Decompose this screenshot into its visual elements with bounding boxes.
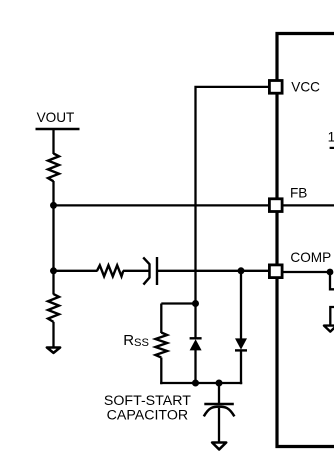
wire FB net horizontal [54, 204, 270, 206]
resistor RSS [156, 333, 168, 358]
node FB divider junction [50, 202, 57, 209]
wire COMP net left segment [54, 270, 98, 272]
wire fraction bar (clipped) [330, 147, 334, 149]
node COMP internal junction [327, 269, 334, 276]
wire right diode branch upper [240, 271, 242, 339]
svg-text:1: 1 [328, 129, 334, 144]
resistor R3 (compensation, horizontal) [97, 265, 123, 276]
ground (below R2) [47, 348, 60, 353]
svg-text:CAPACITOR: CAPACITOR [107, 408, 188, 424]
wire VCC branch: pin to vertical rail [196, 87, 270, 304]
pin square FB [269, 199, 282, 212]
wire COMP internal to corner [283, 272, 334, 289]
diode D2 (pointing down) triangle [235, 338, 247, 349]
wire right diode branch lower [240, 350, 242, 384]
svg-text:VCC: VCC [291, 80, 320, 95]
wire RSS branch top lead [160, 304, 162, 334]
ground (below CSS) [212, 443, 226, 450]
diode D1 (pointing up) cathode bar [190, 337, 202, 339]
wire soft-start cap top lead [218, 383, 220, 404]
wire R2 to ground [52, 322, 54, 347]
capacitor CSS curved plate [204, 407, 235, 417]
wire RSS bottom lead [160, 358, 162, 385]
wire R1 to FB node down to R2 [52, 181, 54, 295]
capacitor C1 straight plate [156, 257, 158, 285]
wire RSS top connection [161, 302, 195, 304]
wire bottom horizontal (soft-start net) [160, 382, 242, 384]
wire left diode branch lower [194, 350, 196, 383]
IC U1 box outline [277, 34, 334, 447]
node COMP row left junction [50, 267, 57, 274]
ground (internal, right edge) [324, 326, 334, 332]
svg-text:FB: FB [290, 185, 307, 200]
resistor R2 (lower feedback divider) [48, 294, 59, 322]
svg-text:RSS: RSS [123, 332, 149, 349]
node VCC rail / RSS junction [192, 300, 199, 307]
wire VOUT bar to R1 [52, 129, 54, 154]
wire soft-start cap bottom lead [218, 408, 220, 443]
diode D1 triangle [190, 339, 202, 350]
pin square COMP [269, 265, 282, 278]
svg-text:VOUT: VOUT [37, 110, 75, 125]
wire FB internal (inside IC) [283, 204, 334, 206]
svg-text:COMP: COMP [290, 250, 331, 265]
capacitor CSS top plate [204, 403, 234, 406]
node soft-start cap tap [216, 380, 223, 387]
wire VOUT terminal bar [36, 128, 80, 131]
node right diode tap on COMP net [238, 267, 245, 274]
wire left diode branch upper [194, 304, 196, 339]
pin square VCC [269, 81, 282, 94]
diode D2 cathode bar [235, 349, 247, 351]
resistor R1 (upper feedback divider) [48, 154, 59, 182]
wire internal return segment [330, 307, 334, 325]
capacitor C1 curved plate [143, 257, 149, 284]
wire C1 to COMP pin [157, 270, 269, 272]
node bottom wire left junction [192, 380, 199, 387]
wire R3 to C1 [123, 270, 149, 272]
